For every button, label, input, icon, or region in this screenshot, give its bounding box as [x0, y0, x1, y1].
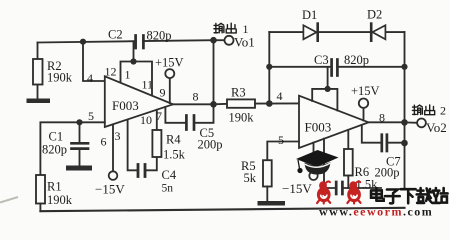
svg-text:6: 6: [101, 135, 107, 149]
svg-text:C3: C3: [314, 53, 329, 67]
wire output U1 to R3: [214, 103, 228, 106]
svg-text:D1: D1: [302, 8, 317, 22]
node 输出2 label (Chinese): [412, 105, 434, 115]
ground (below R5): [258, 201, 286, 206]
svg-text:200p: 200p: [198, 138, 223, 152]
wire pin 9 of U1 to +15V: [169, 78, 171, 103]
wire pin 10 of U2 to R6: [347, 130, 349, 149]
node C1 tap on pin5 wire: [76, 119, 82, 125]
diode D1: [303, 24, 317, 41]
svg-text:8: 8: [379, 111, 385, 125]
node C3 right: [401, 64, 407, 70]
wire pin 5 of U2 to R5: [267, 142, 299, 161]
ground (below C1): [66, 166, 92, 171]
resistor R6: [344, 149, 353, 176]
svg-text:11: 11: [142, 78, 154, 92]
svg-text:+15V: +15V: [155, 56, 184, 70]
ground (below R2): [27, 99, 51, 104]
svg-text:190k: 190k: [47, 71, 73, 85]
svg-text:190k: 190k: [47, 193, 73, 207]
op-amp U2 F003: [299, 96, 369, 148]
svg-text:C1: C1: [49, 130, 64, 144]
capacitor C1: [72, 122, 89, 165]
wire pin 7 of U1 to C5: [165, 107, 184, 123]
wire pin 10 of U1 to R4: [156, 110, 158, 130]
wire output pin 8 of U2: [369, 121, 405, 123]
terminal Vo2: [417, 119, 426, 128]
wire pin 3 of U1 to C4: [128, 120, 137, 171]
wire pin 6 of U2 to -15V: [313, 143, 315, 172]
wire to Vo2 terminal: [405, 121, 418, 123]
svg-text:−15V: −15V: [282, 181, 312, 196]
svg-text:190k: 190k: [229, 111, 255, 125]
wire C5 to output node: [196, 104, 214, 123]
node 输出1 label (Chinese): [214, 23, 236, 33]
node C7/output: [401, 140, 408, 147]
resistor R5: [263, 160, 272, 186]
watermark red bug 2: [347, 181, 361, 203]
wire top feedback rail (pin4 to output node, through C2): [38, 40, 214, 42]
svg-text:1.5k: 1.5k: [163, 148, 186, 162]
capacitor C7: [382, 135, 387, 151]
-15V terminal (U2): [309, 172, 317, 180]
wire C7 to output vertical: [388, 142, 404, 144]
+15V terminal (U2): [359, 99, 368, 108]
capacitor C4: [138, 165, 145, 177]
wire compensation bus of U2: [312, 67, 337, 111]
wire R1 bottom to rail: [39, 204, 41, 212]
svg-text:C2: C2: [108, 28, 123, 42]
wire pin 5 of U1 to R1: [40, 122, 104, 175]
svg-text:820p: 820p: [147, 29, 172, 43]
svg-text:7: 7: [156, 109, 162, 123]
wire C4 to R4 bottom: [146, 157, 156, 170]
wire compensation bus pins 1-11 of U1: [121, 41, 153, 96]
svg-text:5: 5: [278, 133, 284, 147]
node comp bus junction of U1: [130, 58, 136, 64]
svg-text:1: 1: [125, 68, 131, 82]
node comp bus junction of U2: [325, 86, 331, 92]
wire output pin 8 of U1: [173, 103, 214, 105]
svg-text:www.eeworm.com: www.eeworm.com: [319, 205, 433, 219]
watermark red bug 1: [317, 181, 331, 203]
op-amp U1 F003: [105, 76, 173, 127]
wire bottom rail: [40, 208, 404, 211]
wire pin 9 of U2 to +15V: [363, 108, 365, 121]
-15V terminal (U1): [109, 171, 118, 180]
svg-text:Vo1: Vo1: [234, 35, 255, 50]
svg-text:9: 9: [160, 86, 166, 100]
svg-text:F003: F003: [112, 98, 139, 113]
watermark graduation cap: [296, 150, 339, 175]
svg-text:R3: R3: [231, 86, 246, 100]
svg-text:1: 1: [243, 22, 249, 36]
+15V terminal (U1): [165, 69, 174, 78]
svg-text:Vo2: Vo2: [426, 120, 447, 135]
svg-text:R1: R1: [47, 180, 62, 194]
node C3 left: [266, 64, 272, 70]
svg-text:8: 8: [193, 90, 199, 104]
wire pin 4 of U1: [83, 42, 105, 81]
wire left vertical to diode/C3 rails: [268, 32, 270, 103]
wire pin 6 of U1 to -15V: [112, 125, 114, 172]
svg-text:820p: 820p: [42, 143, 67, 157]
capacitor C6: [336, 182, 342, 194]
watermark text 电子下载站: [371, 188, 448, 203]
node pin4 branch (junction on top rail): [80, 39, 86, 45]
svg-text:F003: F003: [305, 120, 332, 135]
svg-text:R4: R4: [166, 133, 181, 147]
svg-text:−15V: −15V: [95, 182, 125, 197]
svg-text:D2: D2: [367, 8, 382, 22]
svg-text:5: 5: [88, 109, 94, 123]
resistor R1: [36, 175, 45, 204]
wire C3 rail: [269, 66, 404, 68]
scan artifact bottom-left: [0, 197, 18, 203]
wire pin 3 of U2 to C6: [324, 139, 335, 188]
node output U1: [210, 101, 217, 108]
wire to Vo1 terminal: [214, 39, 225, 41]
resistor R2: [33, 43, 43, 99]
svg-text:+15V: +15V: [351, 84, 380, 98]
svg-text:4: 4: [277, 89, 283, 103]
node Vo1 tap: [210, 37, 217, 44]
svg-text:5k: 5k: [244, 171, 257, 185]
wire pin 7 of U2 to C7: [362, 125, 381, 143]
resistor R3: [227, 99, 255, 107]
resistor R4: [152, 130, 161, 157]
svg-text:4: 4: [87, 71, 93, 85]
svg-text:10: 10: [140, 113, 152, 127]
wire R6 bottom: [347, 176, 349, 189]
svg-text:12: 12: [105, 65, 117, 79]
diode D2: [371, 24, 385, 41]
wire C6 to R6 bottom and output vertical: [344, 187, 381, 189]
node output U2: [401, 119, 408, 126]
svg-text:3: 3: [115, 129, 121, 143]
terminal Vo1: [225, 36, 234, 45]
wire right vertical (diodes/C3 to output 2): [404, 32, 406, 189]
svg-text:2: 2: [440, 104, 446, 118]
capacitor C3: [332, 60, 338, 76]
wire diode rail: [269, 31, 404, 33]
svg-text:C4: C4: [162, 168, 177, 182]
node pin4 U2: [266, 100, 273, 107]
wire R3 to pin 4 of U2: [255, 102, 299, 104]
wire R5 to ground: [266, 187, 268, 202]
svg-text:200p: 200p: [375, 166, 400, 180]
wire output node up to Vo1: [213, 40, 215, 104]
svg-text:820p: 820p: [344, 53, 369, 67]
capacitor C2: [136, 36, 144, 49]
svg-text:5n: 5n: [162, 183, 174, 195]
capacitor C5: [186, 116, 194, 130]
